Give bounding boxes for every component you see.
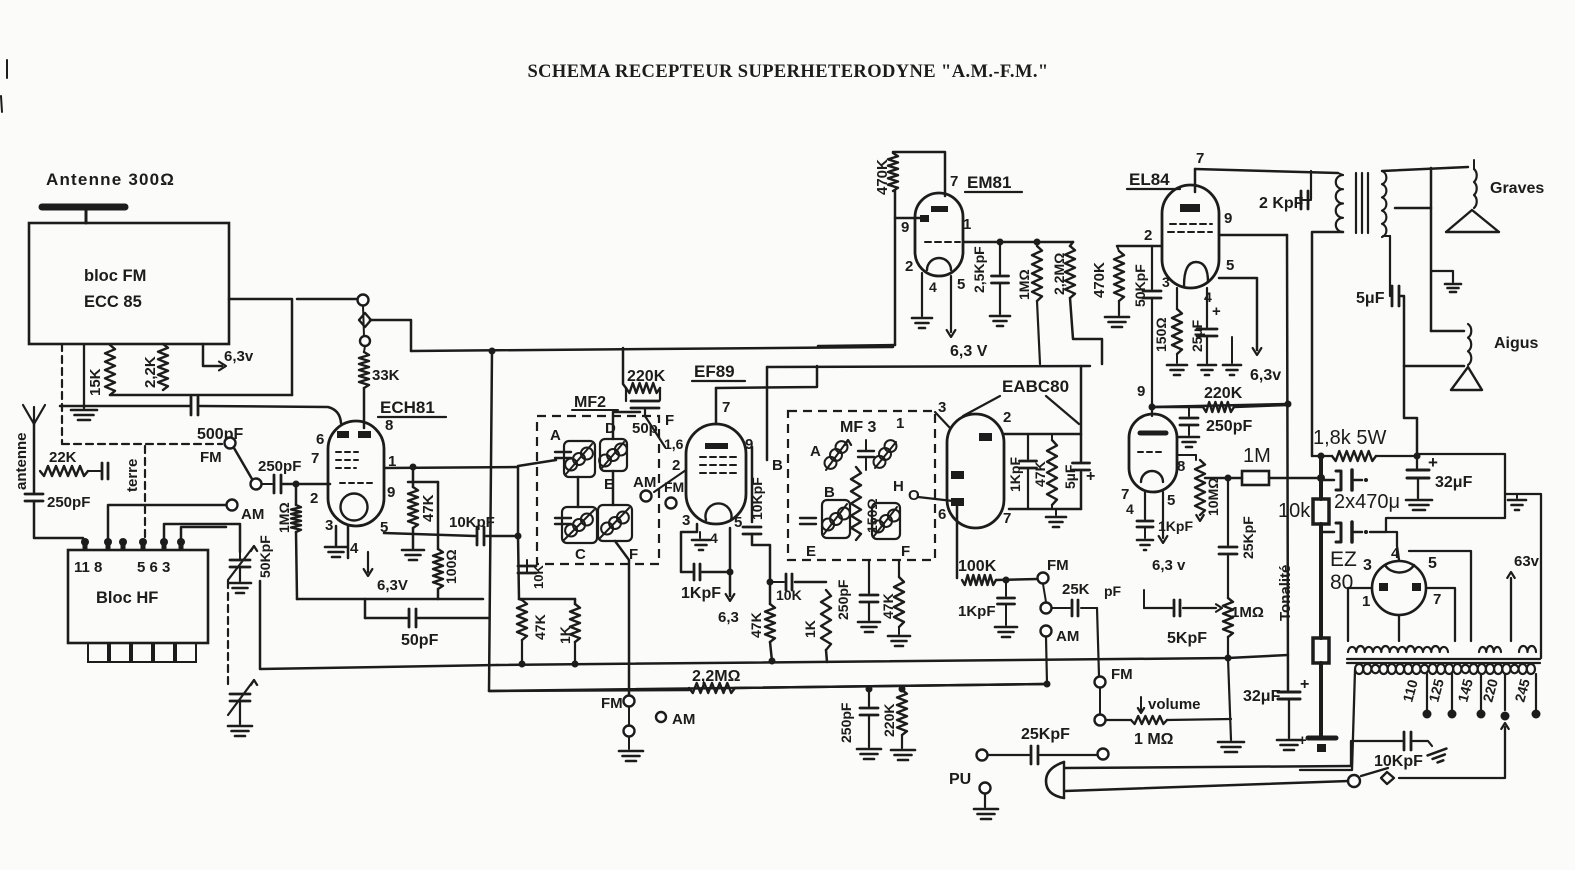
wire 1M drop <box>1037 301 1040 364</box>
capacitor 250pF FM <box>262 483 272 485</box>
svg-text:MF2: MF2 <box>574 394 606 411</box>
svg-text:6,3 V: 6,3 V <box>950 343 988 360</box>
wire antenna drop <box>33 424 36 494</box>
svg-text:A: A <box>550 427 561 444</box>
node 1M left <box>1225 475 1232 482</box>
resistor 2,2M det <box>689 683 735 693</box>
svg-text:3: 3 <box>938 399 946 416</box>
node 10KpF avc <box>767 579 774 586</box>
tube triode cathode <box>1141 471 1163 482</box>
tube triode anode pad <box>1140 431 1166 436</box>
node tone lineA <box>1225 655 1232 662</box>
svg-text:3: 3 <box>1363 557 1372 574</box>
capacitor 1KpF EF89 <box>693 564 696 580</box>
power transformer secondary <box>1348 646 1448 652</box>
wire EF89 pin7 <box>715 388 718 424</box>
wire O to EABC80 <box>918 497 953 501</box>
svg-text:F: F <box>629 546 638 563</box>
speaker coil Graves <box>1474 169 1477 208</box>
wire 220K ends <box>1152 406 1203 409</box>
capacitor 10KpF EF89 <box>743 526 761 529</box>
wire EL84 pin9 line <box>1219 234 1287 237</box>
node 100K 1KpF <box>1003 577 1010 584</box>
power transformer core <box>1347 658 1540 660</box>
svg-text:47K: 47K <box>880 593 896 619</box>
tube EM81 pad <box>931 206 948 212</box>
ground EF89 pin4 <box>699 532 701 538</box>
svg-text:1KpF: 1KpF <box>958 603 996 620</box>
capacitor 1KpF det <box>1005 580 1007 596</box>
ground 150ohm <box>1176 354 1178 363</box>
svg-text:2,2K: 2,2K <box>142 356 159 388</box>
tube EF89 cathode <box>706 503 732 520</box>
wire EM81 left rail <box>894 191 897 345</box>
wire EABC80 diode rail <box>1004 433 1081 436</box>
switch FM contact IF <box>666 498 677 509</box>
wire to Aigus <box>1431 330 1464 333</box>
node B+ 10k <box>1318 453 1325 460</box>
resistor 33K <box>359 352 369 388</box>
svg-text:470K: 470K <box>1091 262 1108 298</box>
svg-text:47K: 47K <box>1032 461 1048 487</box>
svg-text:2: 2 <box>905 258 913 275</box>
capacitor B MF3 <box>800 517 816 519</box>
capacitor 10KpF mains <box>1351 741 1402 766</box>
ground 10KpF mains <box>1428 749 1450 765</box>
arrow EL84 heater <box>1253 348 1262 355</box>
capacitor 2x470u upper <box>1321 479 1334 482</box>
node 1M EM81 <box>1034 239 1041 246</box>
svg-text:Graves: Graves <box>1490 180 1544 197</box>
capacitor 10KpF AVC <box>770 581 784 583</box>
resistor 470K EL84 <box>1114 251 1124 301</box>
node 47K pin1 <box>410 464 417 471</box>
wire AVC drop to detector line <box>489 351 492 691</box>
tube EZ80 pads <box>1379 583 1388 591</box>
wire blocFM bottom rail <box>110 394 292 397</box>
wire MF3-3 to tube <box>935 412 950 428</box>
svg-text:47K: 47K <box>748 612 764 638</box>
tube EZ80 envelope <box>1372 561 1426 615</box>
wire AM det gnd <box>628 737 630 749</box>
resistor 1Mohm tone pot <box>1223 598 1233 637</box>
wire EF89 pin9 drop <box>751 447 754 522</box>
svg-text:FM: FM <box>1111 666 1133 683</box>
resistor 1Mohm EM81 <box>1032 246 1042 301</box>
svg-text:220K: 220K <box>881 704 897 737</box>
svg-text:F: F <box>901 543 910 560</box>
capacitor 50pF IF <box>631 400 659 403</box>
wire 33K to ECH81 grid <box>363 388 366 428</box>
node lineA 47K <box>519 661 526 668</box>
svg-text:ECC 85: ECC 85 <box>84 293 142 311</box>
svg-text:EF89: EF89 <box>694 362 735 381</box>
tube EM81 grid dash <box>925 241 960 243</box>
wire ECH81 pin1 line <box>384 467 518 468</box>
ground 470K EL84 <box>1118 301 1120 315</box>
tube ECH81 envelope <box>328 421 384 526</box>
resistor 15K <box>105 345 115 395</box>
capacitor output thick <box>1308 736 1336 741</box>
wire 47K top <box>412 467 415 487</box>
wire 47K mixer bottom <box>521 640 523 664</box>
svg-text:47K: 47K <box>532 614 548 640</box>
wire lineB right seg <box>735 684 1047 688</box>
ground 47K ECH81 <box>412 528 415 548</box>
tube EABC80 triode envelope <box>1129 414 1177 492</box>
wire ECH81 pin5 line <box>384 533 475 536</box>
MF3 dashed box <box>788 411 935 560</box>
wire EZ80 bottom pin <box>1398 615 1400 641</box>
wire B+ rail <box>1287 235 1288 690</box>
wire 2,2M drop <box>1070 298 1102 364</box>
wire EM81 corner <box>818 345 895 346</box>
speaker cone Graves <box>1446 210 1499 232</box>
wire 47K EF89 bottom <box>770 642 772 661</box>
svg-text:EL84: EL84 <box>1129 170 1170 189</box>
capacitor 250pF coupling <box>1188 407 1190 416</box>
svg-text:+: + <box>1086 468 1095 485</box>
ground var lower <box>228 725 252 728</box>
vertical B+ EABC80 <box>1080 366 1083 462</box>
svg-text:6,3V: 6,3V <box>377 577 408 594</box>
capacitor MF3 top <box>858 450 874 452</box>
resistor 1,8k 5W <box>1312 455 1332 457</box>
wire 50pF left drop <box>364 599 367 618</box>
wire pin9 EM81 <box>895 217 920 220</box>
svg-text:7: 7 <box>1433 591 1441 608</box>
svg-text:FM: FM <box>200 449 222 466</box>
svg-text:7: 7 <box>311 450 319 467</box>
svg-text:EABC80: EABC80 <box>1002 377 1069 396</box>
connector PU <box>980 783 991 794</box>
bloc HF pins <box>81 538 89 550</box>
transformer coil A MF3 <box>825 457 837 469</box>
svg-text:47K: 47K <box>420 494 437 522</box>
svg-text:terre: terre <box>124 459 141 492</box>
svg-text:9: 9 <box>1137 383 1145 400</box>
wire EF89 pin5 drop <box>729 528 732 596</box>
ground blocFM terre <box>83 344 85 408</box>
tap 125 <box>1451 674 1453 710</box>
svg-text:470K: 470K <box>874 159 891 195</box>
svg-text:100K: 100K <box>958 558 997 575</box>
wire var lower gnd <box>239 701 241 724</box>
svg-text:1MΩ: 1MΩ <box>1016 269 1032 300</box>
bloc FM box <box>29 223 229 344</box>
tube EF89 envelope <box>686 424 746 524</box>
wire B corner <box>766 367 769 460</box>
svg-text:9: 9 <box>1224 210 1232 227</box>
svg-text:EM81: EM81 <box>967 173 1011 192</box>
tube triode grid dash <box>1138 451 1164 453</box>
tube EL84 cathode <box>1184 262 1208 286</box>
svg-text:7: 7 <box>950 173 958 190</box>
wire mains to tap <box>1399 727 1505 778</box>
ground 25uF <box>1198 364 1216 367</box>
trimmer 50KpF <box>230 559 250 562</box>
connector circle 1 <box>358 295 369 306</box>
switch AM audio <box>1041 626 1052 637</box>
svg-text:5KpF: 5KpF <box>1167 630 1207 647</box>
ground trimmer <box>229 582 251 585</box>
svg-text:1MΩ: 1MΩ <box>1231 604 1264 621</box>
switch FM contact <box>225 438 236 449</box>
svg-text:PU: PU <box>949 771 971 788</box>
svg-text:32μF: 32μF <box>1435 474 1473 491</box>
svg-text:4: 4 <box>350 540 359 557</box>
resistor 100K <box>962 575 996 585</box>
tube EABC80 pads <box>979 433 992 441</box>
resistor 1K AVC <box>821 590 831 650</box>
tube EABC80 envelope <box>947 414 1004 528</box>
wire 10KpF to 47K <box>752 534 770 604</box>
wire ECH81 heater <box>347 526 350 558</box>
svg-text:5: 5 <box>1167 492 1175 509</box>
wire B+ box right <box>1370 454 1505 532</box>
bloc HF box <box>68 550 208 643</box>
wire detector line A <box>497 655 1288 665</box>
svg-text:FM: FM <box>1047 557 1069 574</box>
arrow EF89 heater <box>726 594 735 601</box>
scan artifact top-left <box>1 60 7 112</box>
capacitor 1KpF triode <box>1144 492 1146 519</box>
wire 1K mixer top <box>574 599 577 604</box>
connector diamond <box>359 313 371 327</box>
wire primary bottom <box>1312 232 1343 456</box>
node grid junction <box>293 481 300 488</box>
svg-text:220K: 220K <box>627 368 666 385</box>
svg-text:25KpF: 25KpF <box>1021 726 1070 743</box>
transformer can D <box>600 439 627 471</box>
svg-text:1: 1 <box>1362 593 1370 610</box>
node EF89 cath junction <box>727 569 734 576</box>
svg-text:50KpF: 50KpF <box>1132 264 1148 307</box>
resistor 220K det <box>897 690 907 735</box>
svg-text:AM: AM <box>241 506 264 523</box>
svg-text:7: 7 <box>722 399 730 416</box>
svg-text:4: 4 <box>710 530 718 546</box>
capacitor 2KpF <box>1310 171 1312 199</box>
node riser 10KpF <box>515 533 522 540</box>
svg-text:H: H <box>893 478 904 495</box>
node coupling right <box>1285 401 1292 408</box>
label O AM det <box>656 712 666 722</box>
svg-text:1,8k 5W: 1,8k 5W <box>1313 427 1386 449</box>
wire 47K mixer top <box>519 599 522 600</box>
svg-text:80: 80 <box>1330 571 1353 594</box>
svg-text:FM: FM <box>664 479 684 495</box>
wire primary left end <box>1300 670 1355 770</box>
wire EABC80 label diag R <box>1046 396 1079 424</box>
svg-text:22K: 22K <box>49 449 77 466</box>
node 47K det <box>769 658 776 665</box>
resistor 100ohm <box>437 482 440 549</box>
svg-text:63v: 63v <box>1514 553 1540 570</box>
svg-text:AM: AM <box>633 474 656 491</box>
svg-text:Aigus: Aigus <box>1494 335 1539 352</box>
svg-text:volume: volume <box>1148 696 1201 713</box>
svg-text:6,3 v: 6,3 v <box>1152 557 1186 574</box>
svg-text:Bloc HF: Bloc HF <box>96 589 158 607</box>
switch FM volume <box>1095 677 1106 688</box>
transformer coil B MF3 <box>822 500 850 538</box>
svg-text:3: 3 <box>682 512 690 529</box>
wire 47K-100 link <box>408 481 438 484</box>
node 2,5KpF <box>997 239 1004 246</box>
resistor 47K MF3 <box>898 560 900 577</box>
wire ECH81 pin3 to ground <box>335 526 338 545</box>
capacitor var lower <box>227 581 229 684</box>
transformer coil F MF3 <box>872 503 900 539</box>
ground 2,5KpF <box>990 315 1010 318</box>
tube EM81 pad2 <box>920 215 929 222</box>
svg-text:1K: 1K <box>802 620 818 638</box>
svg-text:25K: 25K <box>1062 581 1090 598</box>
svg-text:9: 9 <box>901 219 909 236</box>
svg-text:10KpF: 10KpF <box>749 477 765 520</box>
ground 32uF main <box>1406 499 1432 502</box>
resistor tone box lower <box>1313 638 1329 663</box>
wire pin6 link <box>164 524 240 552</box>
bloc HF bottom tabs <box>88 643 108 662</box>
ground 250pF det <box>857 748 881 751</box>
wire 100K to FM <box>996 579 1038 580</box>
svg-text:5: 5 <box>1428 555 1437 572</box>
wire AM to pin8 <box>108 505 226 541</box>
tube EM81 envelope <box>915 193 963 276</box>
svg-text:5: 5 <box>957 276 965 293</box>
resistor 150ohm MF3 <box>851 467 861 540</box>
svg-text:15K: 15K <box>87 368 104 396</box>
svg-text:32μF: 32μF <box>1243 688 1281 705</box>
wire EZ80 left pin <box>1348 588 1372 641</box>
tube EM81 cathode <box>927 258 951 270</box>
output transformer core <box>1355 173 1357 233</box>
wire tone gnd drop <box>1228 658 1231 740</box>
svg-text:11 8: 11 8 <box>74 559 102 576</box>
wire riser down <box>518 536 519 599</box>
node 250pF lineB <box>866 686 873 693</box>
svg-text:antenne: antenne <box>13 432 30 490</box>
wire diamond to AVC line <box>370 320 411 351</box>
wire EM81 pin1 line <box>963 241 1073 244</box>
resistor 47K EABC80 <box>1047 440 1057 505</box>
arrow tone wiper <box>1216 604 1222 612</box>
wire antenna to pin11 <box>34 501 83 542</box>
MF2 dashed box <box>537 416 659 564</box>
wire coupling line <box>1152 404 1288 407</box>
switch AM det <box>624 726 635 737</box>
svg-text:250pF: 250pF <box>258 458 301 475</box>
svg-text:F: F <box>665 412 674 429</box>
arrow 63v <box>1510 578 1512 641</box>
wire primary top <box>1338 173 1343 175</box>
resistor 150ohm EL84 <box>1176 288 1178 309</box>
svg-text:9: 9 <box>387 484 395 501</box>
capacitor 50KpF coupling <box>1151 246 1153 289</box>
ground PU <box>984 794 986 807</box>
svg-text:FM: FM <box>601 695 623 712</box>
switch lever audio <box>1043 584 1046 602</box>
capacitor can C <box>555 517 571 519</box>
resistor 47K ECH81 <box>408 487 418 528</box>
capacitor 5uF output <box>1383 235 1390 237</box>
wire FM-AM det stub <box>628 707 630 726</box>
ground output mid <box>1432 271 1453 282</box>
svg-text:1KpF: 1KpF <box>1007 457 1023 492</box>
tube EF89 grid dashes <box>700 456 740 458</box>
svg-text:2 KpF: 2 KpF <box>1259 195 1304 212</box>
capacitor 250pF MF3 <box>868 560 870 593</box>
wire EZ80 right pin <box>1426 588 1455 641</box>
wire 50pF stub <box>645 416 665 447</box>
transformer can C <box>562 507 597 543</box>
svg-text:2: 2 <box>310 490 318 507</box>
svg-text:10K: 10K <box>776 587 802 603</box>
speaker coil Aigus <box>1468 324 1471 365</box>
svg-text:220K: 220K <box>1204 385 1243 402</box>
wire EABC80 bottom rail <box>1009 508 1081 511</box>
svg-text:5 6 3: 5 6 3 <box>137 559 170 576</box>
svg-text:2,2MΩ: 2,2MΩ <box>1051 253 1067 295</box>
resistor 10k box <box>1319 456 1323 499</box>
ground ECH81 cathode <box>325 546 347 549</box>
transformer can A <box>564 441 595 477</box>
resistor 470K EM81 <box>888 153 898 191</box>
wire trimmer gnd <box>239 567 241 581</box>
wire heater rail <box>767 366 1090 367</box>
resistor 2,2Mohm EM81 <box>1065 246 1075 298</box>
wire pin2 EM81 gnd <box>921 273 923 316</box>
capacitor 2,5KpF <box>999 242 1001 274</box>
switch mains <box>1348 775 1360 787</box>
capacitor 2x470u lower <box>1321 531 1334 534</box>
svg-text:+: + <box>1300 676 1309 693</box>
capacitor terre 22K <box>101 463 104 479</box>
capacitor 25uF <box>1206 288 1208 327</box>
switch FM audio <box>1038 573 1049 584</box>
svg-text:100Ω: 100Ω <box>443 549 459 584</box>
svg-text:6,3v: 6,3v <box>224 348 254 365</box>
svg-text:2x470μ: 2x470μ <box>1334 491 1400 513</box>
arrow triode heater <box>1162 492 1164 538</box>
svg-text:4: 4 <box>929 279 937 295</box>
wire diode2 drop <box>956 506 959 578</box>
wire EL84 pin5 <box>1219 278 1257 350</box>
svg-text:25µF: 25µF <box>1189 319 1205 352</box>
wire A top <box>518 460 556 466</box>
svg-text:10K: 10K <box>531 565 546 589</box>
switch AM contact IF <box>641 491 652 502</box>
svg-text:250pF: 250pF <box>838 702 854 743</box>
svg-text:2,2MΩ: 2,2MΩ <box>692 668 741 685</box>
wire 10KpF to riser <box>486 535 518 538</box>
svg-text:8: 8 <box>1177 458 1185 475</box>
wire 1K bottom <box>826 650 827 662</box>
svg-text:Antenne 300Ω: Antenne 300Ω <box>46 170 175 189</box>
wire EZ80 anode loop <box>1409 551 1471 641</box>
svg-text:C: C <box>575 546 586 563</box>
power transformer primary <box>1355 669 1535 674</box>
tap 145 <box>1480 674 1482 710</box>
tap 110 <box>1426 674 1428 710</box>
wire lineB left seg <box>489 690 689 691</box>
resistor 47K mixer <box>517 600 527 640</box>
wire 220K top <box>623 348 626 388</box>
svg-text:4: 4 <box>1126 501 1134 517</box>
ground tone <box>1218 741 1244 744</box>
